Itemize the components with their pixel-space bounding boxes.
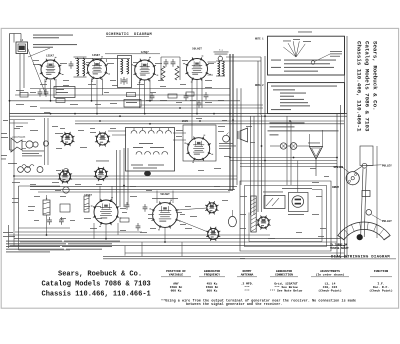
pointer carriage xyxy=(362,191,370,197)
svg-text:L3, L4: L3, L4 xyxy=(325,282,336,285)
svg-text:+: + xyxy=(46,197,48,200)
capacitor xyxy=(150,93,155,101)
svg-text:PULLEY: PULLEY xyxy=(382,220,392,223)
svg-text:600 Kc: 600 Kc xyxy=(171,290,182,293)
capacitor C7 coupling xyxy=(161,57,180,80)
svg-text:600 Kc: 600 Kc xyxy=(207,290,218,293)
capacitor xyxy=(143,204,148,212)
svg-text:35Z5: 35Z5 xyxy=(182,120,189,123)
wire ground bus 1 xyxy=(10,113,348,115)
pulley mid xyxy=(366,210,372,216)
tone switch xyxy=(8,163,43,173)
label Sears Roebuck title xyxy=(42,271,151,299)
wire bottom bus a0 xyxy=(15,231,142,233)
pilot lamp I1 xyxy=(280,143,286,149)
svg-text:ANTENNA: ANTENNA xyxy=(241,274,254,277)
note 2 text lines xyxy=(271,86,337,111)
svg-text:Chassis 110.466, 110.466-1: Chassis 110.466, 110.466-1 xyxy=(42,291,151,299)
wire nested loop inner xyxy=(249,190,322,242)
small socket xyxy=(206,227,220,241)
IF transformer T2 windings xyxy=(69,57,87,77)
svg-text:1500 Kc: 1500 Kc xyxy=(170,286,183,289)
wire plate leads to transformer xyxy=(208,57,262,115)
wire band switch leads xyxy=(108,131,186,140)
terminal strip box xyxy=(60,204,70,212)
wire left frame xyxy=(19,186,71,250)
table footnote xyxy=(161,298,356,306)
small tone tube xyxy=(94,167,108,181)
capacitor xyxy=(136,223,141,231)
band switch S1 box xyxy=(126,128,175,172)
wire bottom bus g xyxy=(103,258,341,260)
sec xyxy=(223,61,225,76)
svg-text:VARIABLE: VARIABLE xyxy=(169,274,184,277)
svg-text:NOTE 2: NOTE 2 xyxy=(255,84,264,87)
resistor R1 xyxy=(20,93,28,98)
resistor R2 xyxy=(56,99,65,103)
svg-text:.2 MFD.: .2 MFD. xyxy=(241,282,254,285)
wire bus 95 xyxy=(15,94,230,96)
wire V5 V6 connections xyxy=(94,186,208,239)
w2 xyxy=(127,59,129,74)
svg-text:*** See Note Below: *** See Note Below xyxy=(270,289,303,293)
small tube c xyxy=(58,169,72,183)
alignment table rows xyxy=(170,281,393,292)
svg-text:12SQ7: 12SQ7 xyxy=(84,194,92,197)
resistor R16 xyxy=(186,92,194,96)
tube small a xyxy=(60,132,74,146)
small power tube xyxy=(256,215,270,229)
svg-text:between the signal generator a: between the signal generator and the rec… xyxy=(186,302,283,306)
svg-text:1500 Kc: 1500 Kc xyxy=(206,286,219,289)
svg-text:POSITION OF: POSITION OF xyxy=(166,270,186,273)
wire L1 down leads xyxy=(20,48,46,95)
svg-text:FUNCTION: FUNCTION xyxy=(374,270,389,273)
electrolytic C20 xyxy=(43,195,50,215)
dial bracket xyxy=(360,146,373,166)
resistor R4 xyxy=(127,93,136,97)
resistor R12 xyxy=(84,196,89,212)
capacitor xyxy=(125,202,130,210)
wire section rails xyxy=(14,176,237,179)
dial scale sector xyxy=(338,222,390,240)
tube V1 12SA7 converter xyxy=(38,55,64,83)
wire nested loop mid xyxy=(245,186,327,247)
power plug xyxy=(289,193,309,212)
tuning shaft xyxy=(357,234,363,240)
wire plug risers xyxy=(142,161,298,257)
jack J1 xyxy=(63,168,68,173)
line cord resistor hatched xyxy=(251,196,256,232)
wire left edge bus xyxy=(9,34,15,249)
dial cord right xyxy=(364,168,366,237)
svg-text:Sears, Roebuck & Co.: Sears, Roebuck & Co. xyxy=(372,41,379,111)
wire bus 105 xyxy=(140,104,263,106)
wire rail y54 xyxy=(105,53,160,55)
wire V4 drops xyxy=(192,79,202,140)
svg-text:50L6GT: 50L6GT xyxy=(160,193,170,196)
resistor R6 xyxy=(168,94,177,98)
tube V3 12SQ7 detector xyxy=(131,51,158,83)
coil primary xyxy=(77,58,79,76)
svg-text:ADJUSTMENTS: ADJUSTMENTS xyxy=(320,270,340,273)
plug P1 xyxy=(43,141,48,146)
on-off switch box xyxy=(263,192,285,209)
extra tiny labels and parts xyxy=(1,32,320,160)
contact blob xyxy=(144,171,151,176)
label dial stringing diagram xyxy=(331,256,396,260)
wire V2 drops xyxy=(92,79,103,114)
loop antenna L1 xyxy=(16,39,28,54)
capacitor xyxy=(69,61,74,69)
wire AVC bus upper xyxy=(10,100,241,102)
label pulley mid xyxy=(372,215,393,224)
coil L5 box xyxy=(124,100,141,108)
wire rectifier box xyxy=(183,125,216,161)
svg-text:NOTE 1: NOTE 1 xyxy=(255,38,264,41)
tube small b xyxy=(95,131,110,146)
electrolytic C22 xyxy=(228,210,236,227)
wire bottom bus d xyxy=(10,245,345,247)
wire V3 drops xyxy=(140,80,151,114)
wire bottom bus c xyxy=(20,241,337,243)
label socket text xyxy=(152,197,178,200)
coil secondary xyxy=(83,58,85,76)
value labels sprinkle xyxy=(12,60,329,259)
svg-text:12SK7: 12SK7 xyxy=(92,54,100,57)
svg-text:(Check-Point): (Check-Point) xyxy=(318,289,342,293)
resistor xyxy=(175,66,179,80)
jack J2 xyxy=(63,187,69,193)
svg-text:(In order shown): (In order shown) xyxy=(316,273,345,277)
svg-text:Chassis 110.466, 110.466-1: Chassis 110.466, 110.466-1 xyxy=(356,41,363,132)
svg-text:50L6GT: 50L6GT xyxy=(192,47,202,50)
svg-text:FREQUENCY: FREQUENCY xyxy=(204,274,220,277)
wire bottom bus e xyxy=(125,252,344,254)
small ballast xyxy=(205,201,218,214)
svg-text:T-1: T-1 xyxy=(219,49,224,52)
svg-text:I.F.: I.F. xyxy=(377,282,384,285)
pilot lamp I2 xyxy=(290,143,297,150)
dial pointer fan diagram xyxy=(283,39,342,64)
svg-text:SPRING: SPRING xyxy=(334,166,344,169)
tube V7 35Z5 rectifier xyxy=(182,120,213,163)
wire left risers xyxy=(14,120,165,256)
loop antenna symbol xyxy=(310,147,323,177)
svg-text:Catalog Models 7086 & 7103: Catalog Models 7086 & 7103 xyxy=(42,281,151,289)
capacitor xyxy=(38,89,43,97)
svg-text:Osc. R.F.: Osc. R.F. xyxy=(373,286,389,289)
svg-text:455 Kc: 455 Kc xyxy=(207,282,218,285)
svg-text:Sears, Roebuck & Co.: Sears, Roebuck & Co. xyxy=(58,271,142,279)
svg-text:GENERATOR: GENERATOR xyxy=(204,270,220,273)
svg-text:*** See Below: *** See Below xyxy=(274,285,298,289)
wire ground bus 2 xyxy=(10,115,348,117)
svg-text:DRUM: DRUM xyxy=(332,186,339,189)
wire center vertical bundle xyxy=(230,54,265,215)
svg-text:Grid, 12SA7GT: Grid, 12SA7GT xyxy=(274,281,298,285)
svg-text:ANY: ANY xyxy=(173,282,179,285)
svg-text:CONNECTION: CONNECTION xyxy=(275,274,293,277)
svg-text:***: *** xyxy=(244,285,250,289)
tube V6 output lower xyxy=(149,193,180,231)
wire bottom bus b xyxy=(14,238,341,240)
svg-text:DUMMY: DUMMY xyxy=(242,270,251,273)
capacitor xyxy=(171,59,176,67)
note box 1 xyxy=(255,36,345,75)
svg-text:PULLEY: PULLEY xyxy=(382,164,392,167)
capacitor xyxy=(44,89,49,97)
oscillator coil L2 box xyxy=(54,87,75,98)
alignment table headers xyxy=(161,270,392,277)
wire bus 124 xyxy=(75,123,344,125)
capacitor xyxy=(204,92,209,100)
volume control R10 xyxy=(219,133,236,149)
capacitor xyxy=(47,217,52,225)
label underside ant control xyxy=(282,187,312,190)
cone jack symbol xyxy=(238,128,248,142)
capacitor xyxy=(59,217,64,225)
wire V1 cathode drops xyxy=(45,79,56,101)
wire nested loop outer xyxy=(240,181,331,251)
capacitor xyxy=(164,59,169,67)
svg-text:TUNING SHAFT: TUNING SHAFT xyxy=(330,247,349,250)
capacitor xyxy=(122,77,127,85)
note box 2 xyxy=(255,83,345,114)
svg-text:GENERATOR: GENERATOR xyxy=(276,270,292,273)
pulley top xyxy=(362,163,367,168)
wire lamp rail xyxy=(270,145,310,147)
loudspeaker xyxy=(11,136,26,153)
wire bottom bus a xyxy=(9,234,271,236)
wire drum to cord xyxy=(354,166,363,172)
prim xyxy=(218,61,220,76)
label turns on tuning shaft xyxy=(330,242,349,251)
legend symbol notes xyxy=(268,122,339,135)
svg-text:C10, C24: C10, C24 xyxy=(323,286,338,289)
wire bus 108 xyxy=(40,107,263,109)
tube V4 50L6GT output xyxy=(183,47,211,82)
resistor R14 xyxy=(120,218,129,222)
wire antenna lead xyxy=(14,34,21,43)
wire left risers mid xyxy=(10,118,49,165)
wire heater rails xyxy=(230,158,337,167)
resistor xyxy=(161,66,165,80)
svg-text:12SA7: 12SA7 xyxy=(46,55,54,58)
label pulley top xyxy=(367,164,392,167)
w1 xyxy=(121,59,123,74)
IF transformer T3 box xyxy=(118,56,132,88)
wire loop antenna feeds xyxy=(310,130,323,147)
label R15 xyxy=(3,232,15,237)
wire grid rail over V2 V3 xyxy=(75,57,180,80)
wire bottom bus f xyxy=(103,255,347,257)
note bottom-left fine print xyxy=(6,241,120,253)
voice coil circles xyxy=(26,141,38,148)
wire mid horizontals xyxy=(30,187,237,192)
capacitor xyxy=(197,100,202,108)
label output transformer text xyxy=(22,151,44,157)
output transformer T1 xyxy=(214,49,229,77)
wire bus 121 xyxy=(75,120,344,122)
label tone cont xyxy=(96,160,109,163)
wire bus 88 xyxy=(30,87,230,89)
wire mid-right verticals xyxy=(287,116,291,185)
dial cord left xyxy=(361,168,363,236)
svg-text:***: *** xyxy=(244,289,250,293)
dial drum xyxy=(346,172,359,185)
svg-text:(Check Point): (Check Point) xyxy=(369,289,393,293)
capacitor xyxy=(184,93,189,101)
callout line from note to L1 xyxy=(28,48,50,57)
note 1 text lines xyxy=(271,60,336,72)
wire mid vertical bundle xyxy=(117,148,129,207)
wire right bus lines xyxy=(337,36,347,258)
note adjust capacity text xyxy=(33,35,77,48)
tube V2 12SK7 IF amplifier xyxy=(84,54,110,82)
wire spring line xyxy=(342,167,350,173)
label 115V AC-DC xyxy=(288,213,304,216)
svg-text:Catalog Models 7086 & 7103: Catalog Models 7086 & 7103 xyxy=(364,41,371,132)
tube V5 first audio xyxy=(84,194,121,227)
